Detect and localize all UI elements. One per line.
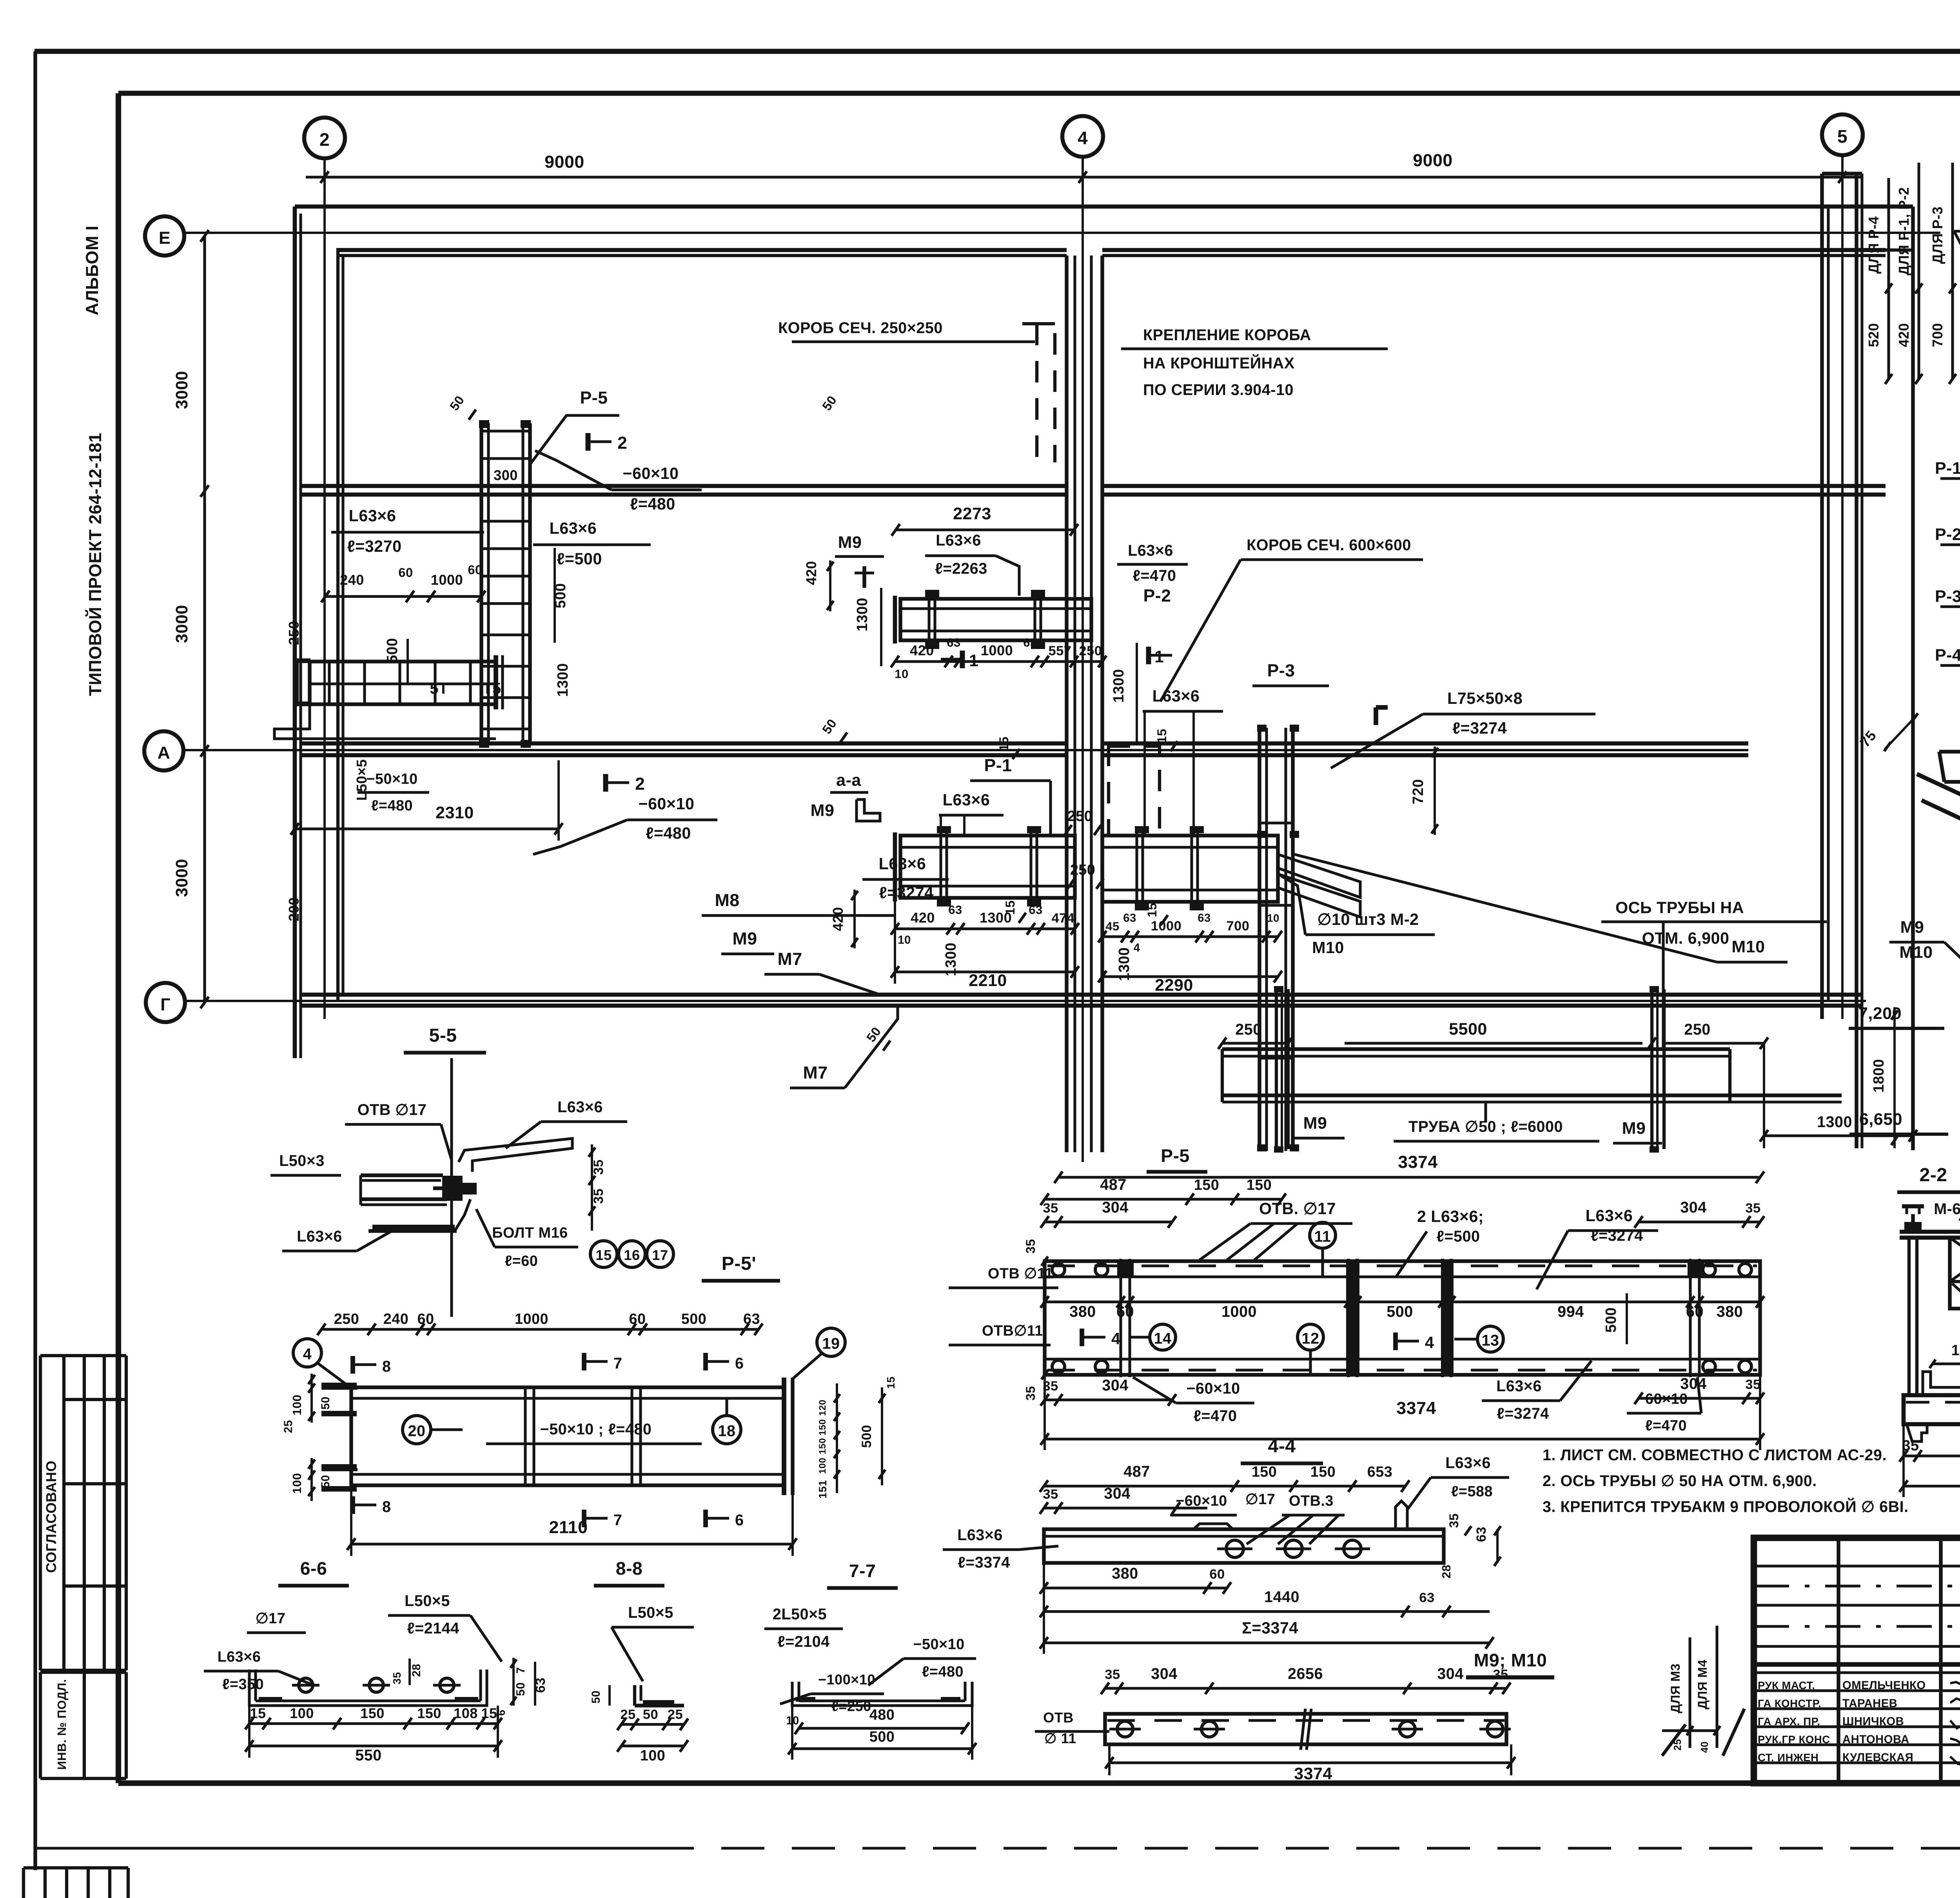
svg-text:ℓ=2104: ℓ=2104 (777, 1633, 829, 1650)
svg-text:63: 63 (948, 903, 962, 917)
svg-text:−60×10: −60×10 (1176, 1493, 1227, 1509)
svg-text:М7: М7 (777, 950, 802, 969)
svg-text:АЛЬБОМ I: АЛЬБОМ I (83, 225, 102, 315)
svg-text:15: 15 (250, 1705, 266, 1721)
svg-text:15: 15 (595, 1247, 612, 1263)
5-5 vertical dims 35 35 (591, 1144, 593, 1231)
svg-text:20: 20 (408, 1423, 426, 1440)
svg-text:304: 304 (1151, 1665, 1177, 1682)
svg-text:380: 380 (1069, 1303, 1096, 1320)
svg-text:Р-5: Р-5 (1161, 1146, 1190, 1166)
svg-text:ℓ=2144: ℓ=2144 (407, 1620, 459, 1637)
axis E line (184, 232, 1940, 234)
svg-text:500: 500 (552, 583, 569, 609)
svg-text:13: 13 (1482, 1332, 1499, 1349)
svg-text:1800: 1800 (1871, 1059, 1887, 1093)
section mark 2 top (586, 433, 591, 451)
circle 13 (1477, 1326, 1503, 1352)
svg-text:1300: 1300 (1817, 1113, 1852, 1131)
dim 2310 below beam (295, 827, 559, 830)
svg-text:L63×6: L63×6 (218, 1649, 261, 1665)
svg-text:1300: 1300 (1116, 947, 1132, 981)
bracket symbol (857, 799, 880, 821)
svg-text:35: 35 (1043, 1201, 1058, 1216)
axis 2 line (323, 158, 326, 1019)
svg-text:700: 700 (1227, 919, 1250, 934)
circle 20 (403, 1416, 431, 1444)
svg-text:420: 420 (830, 907, 846, 931)
svg-text:15: 15 (1154, 729, 1169, 743)
P-5 stiffeners (1119, 1259, 1122, 1377)
svg-text:1000: 1000 (1221, 1303, 1257, 1320)
svg-text:РУК.ГР КОНС: РУК.ГР КОНС (1758, 1733, 1830, 1746)
svg-text:БОЛТ М16: БОЛТ М16 (492, 1225, 568, 1241)
svg-text:L63×6: L63×6 (936, 532, 981, 549)
label 500 right of ladder (554, 548, 556, 643)
svg-text:2290: 2290 (1155, 976, 1193, 995)
ladder top bolt plates (479, 420, 489, 428)
svg-text:2110: 2110 (549, 1518, 588, 1537)
svg-text:240: 240 (340, 572, 364, 588)
dim 2210 below P-1 (895, 970, 1075, 973)
svg-text:L63×6: L63×6 (557, 1099, 603, 1116)
svg-text:М-6: М-6 (1934, 1200, 1960, 1218)
pipe top chord lines (1222, 1047, 1730, 1051)
svg-text:ℓ=3274: ℓ=3274 (1591, 1227, 1643, 1244)
axis G circle (146, 983, 185, 1022)
section mark 1 pair (960, 651, 965, 668)
4-4 bottom dims 1440 63 (1044, 1610, 1490, 1613)
7-7 channel body (792, 1682, 972, 1706)
svg-text:7: 7 (613, 1512, 622, 1529)
svg-text:ℓ=480: ℓ=480 (646, 824, 691, 842)
svg-text:150: 150 (1310, 1464, 1336, 1480)
svg-text:28: 28 (1439, 1564, 1453, 1578)
svg-text:КУЛЕВСКАЯ: КУЛЕВСКАЯ (1842, 1751, 1913, 1764)
svg-text:РУК МАСТ.: РУК МАСТ. (1758, 1679, 1815, 1691)
svg-text:6-6: 6-6 (300, 1558, 327, 1579)
svg-text:120: 120 (817, 1399, 828, 1416)
circle 11 (1310, 1222, 1336, 1248)
svg-text:35: 35 (1105, 1667, 1120, 1682)
frame left border (116, 93, 121, 1783)
svg-text:ℓ=470: ℓ=470 (1133, 567, 1176, 584)
svg-text:L50×3: L50×3 (279, 1152, 325, 1169)
axis 5 line (1841, 155, 1844, 1019)
svg-text:М9: М9 (838, 533, 862, 552)
wall band G axis double lines (302, 993, 1862, 997)
svg-text:КОРОБ СЕЧ. 600×600: КОРОБ СЕЧ. 600×600 (1247, 537, 1411, 554)
svg-text:6: 6 (735, 1355, 744, 1372)
right frame opposite P-1 (1102, 836, 1278, 902)
P-5 end holes (1052, 1264, 1065, 1276)
svg-text:5500: 5500 (1449, 1020, 1487, 1039)
svg-text:ДЛЯ М3: ДЛЯ М3 (1668, 1663, 1682, 1713)
svg-text:63: 63 (1474, 1526, 1489, 1542)
svg-text:63: 63 (1198, 912, 1211, 925)
6-6 hatched feet (259, 1697, 282, 1702)
P-5' section mark 6 bottom (703, 1510, 708, 1527)
P-5' section mark 7 top (582, 1353, 586, 1370)
svg-text:100: 100 (290, 1705, 314, 1721)
label 420 vertical left cluster (853, 890, 856, 948)
dim row below P-2 420 63 1000 63 557 250 (895, 660, 1102, 663)
svg-text:∅10 шт3 М-2: ∅10 шт3 М-2 (1318, 910, 1419, 928)
M9M10 strip body (1105, 1714, 1506, 1744)
svg-text:150: 150 (817, 1438, 828, 1454)
svg-text:ДЛЯ М4: ДЛЯ М4 (1695, 1659, 1710, 1709)
circle 19 P-5' (817, 1328, 845, 1356)
svg-text:17: 17 (652, 1247, 668, 1263)
M9M10 bottom dim 3374 (1109, 1761, 1511, 1764)
svg-text:2210: 2210 (969, 971, 1007, 990)
svg-text:ОТВ.3: ОТВ.3 (1289, 1493, 1334, 1509)
svg-text:Е: Е (159, 228, 171, 248)
svg-text:4-4: 4-4 (1268, 1436, 1296, 1457)
svg-text:304: 304 (1437, 1665, 1463, 1682)
svg-text:25: 25 (282, 1420, 295, 1433)
svg-text:25: 25 (668, 1707, 683, 1722)
dim row below right frame 45 4 63 1000 63 700 10 (1102, 935, 1278, 938)
svg-text:35: 35 (591, 1159, 606, 1175)
svg-text:М9: М9 (1622, 1119, 1646, 1138)
svg-text:50: 50 (590, 1690, 603, 1704)
5-5 top angled plate hatched (459, 1138, 572, 1172)
P-5' left vertical dims (310, 1374, 313, 1423)
svg-text:4: 4 (303, 1346, 312, 1363)
svg-text:50: 50 (643, 1707, 658, 1722)
dla M3 dla M4 columns (1688, 1637, 1691, 1748)
svg-text:3. КРЕПИТСЯ ТРУБАКМ 9 ПРОВОЛ: 3. КРЕПИТСЯ ТРУБАКМ 9 ПРОВОЛОКОЙ ∅ 6ВІ. (1543, 1498, 1909, 1515)
P-2 frame (900, 599, 1091, 640)
svg-text:ℓ=500: ℓ=500 (557, 550, 602, 568)
beam left hatched cap (297, 658, 310, 663)
plan outer wall top (295, 205, 1913, 209)
4-4 dims top 487 150 150 653 (1044, 1485, 1405, 1487)
svg-text:L63×6: L63×6 (957, 1526, 1003, 1544)
svg-text:Σ=3374: Σ=3374 (1242, 1619, 1298, 1637)
svg-text:ПО СЕРИИ 3.904-10: ПО СЕРИИ 3.904-10 (1143, 381, 1294, 399)
svg-text:А: А (158, 743, 171, 763)
svg-text:250: 250 (1235, 1021, 1261, 1038)
P-5' body (351, 1387, 784, 1485)
dim 2290 below right frame (1102, 975, 1278, 978)
P-5 leader label top (530, 415, 619, 464)
left A-axis beam detail (310, 662, 496, 704)
svg-text:L63×6: L63×6 (879, 855, 926, 873)
svg-text:487: 487 (1123, 1463, 1150, 1480)
left room ladder shaft vertical rails (479, 423, 483, 745)
frame top line (34, 49, 1960, 54)
circle 18 (713, 1416, 741, 1444)
svg-text:Г: Г (160, 995, 171, 1014)
P-5' stiffeners (524, 1387, 526, 1485)
svg-text:L63×6: L63×6 (1445, 1454, 1491, 1472)
svg-text:304: 304 (1680, 1375, 1706, 1392)
svg-text:15: 15 (1145, 903, 1159, 917)
svg-text:1: 1 (1154, 647, 1164, 666)
svg-text:2310: 2310 (436, 803, 474, 822)
svg-text:1000: 1000 (981, 642, 1013, 658)
svg-text:L50×5: L50×5 (405, 1592, 450, 1610)
svg-text:35: 35 (1023, 1386, 1038, 1400)
6-6 inner vertical dims (408, 1659, 411, 1685)
2-2 middle angle clips left pair (1923, 1372, 1960, 1395)
P-5 sub dims 35 304 left (1045, 1220, 1172, 1223)
svg-text:6,650: 6,650 (1859, 1110, 1902, 1129)
svg-text:ТАРАНЕВ: ТАРАНЕВ (1842, 1697, 1897, 1710)
svg-text:ℓ=3274: ℓ=3274 (879, 884, 933, 902)
wall band A axis double lines (302, 741, 1067, 746)
svg-text:11: 11 (1314, 1228, 1331, 1245)
frame top second line (118, 91, 1960, 96)
frame bottom border (118, 1780, 1960, 1786)
svg-text:420: 420 (910, 642, 934, 658)
label 500 vertical on beam (407, 639, 409, 684)
P-5 mid dims 380 60 1000 (1045, 1302, 1760, 1302)
svg-text:3374: 3374 (1294, 1764, 1332, 1783)
svg-text:ℓ=500: ℓ=500 (1437, 1228, 1480, 1245)
8-8 dims below (621, 1723, 684, 1726)
svg-text:ОТВ: ОТВ (1043, 1709, 1074, 1726)
5-5 lower hatched plate (372, 1225, 455, 1231)
svg-text:М7: М7 (803, 1063, 828, 1082)
svg-text:994: 994 (1557, 1303, 1584, 1320)
svg-text:ОТМ. 6,900: ОТМ. 6,900 (1642, 929, 1730, 947)
svg-text:НА КРОНШТЕЙНАХ: НА КРОНШТЕЙНАХ (1143, 354, 1295, 372)
2-2 left hatched block (1950, 1238, 1960, 1309)
svg-text:ТИПОВОЙ ПРОЕКТ 264-12-181: ТИПОВОЙ ПРОЕКТ 264-12-181 (85, 433, 105, 696)
svg-text:50: 50 (514, 1682, 527, 1696)
circle 14 (1150, 1324, 1176, 1350)
svg-text:ℓ=350: ℓ=350 (222, 1676, 264, 1693)
axis 5 circle (1822, 114, 1863, 155)
svg-text:L63×6: L63×6 (297, 1228, 342, 1245)
svg-text:15: 15 (996, 736, 1011, 751)
svg-text:L63×6: L63×6 (1152, 687, 1200, 705)
svg-text:720: 720 (1410, 779, 1426, 805)
axis4 shaft wall verticals (1065, 256, 1068, 1152)
pipe right shaft (1650, 989, 1653, 1149)
axis E circle (145, 216, 184, 256)
8-8 height dims (608, 1685, 611, 1706)
svg-text:ГА КОНСТР.: ГА КОНСТР. (1758, 1697, 1821, 1709)
svg-text:45: 45 (1105, 919, 1119, 933)
P-5' dim 2110 (351, 1543, 793, 1545)
svg-text:1. ЛИСТ СМ. СОВМЕСТНО С ЛИ: 1. ЛИСТ СМ. СОВМЕСТНО С ЛИСТОМ АС-29. (1543, 1447, 1887, 1464)
svg-text:ОМЕЛЬЧЕНКО: ОМЕЛЬЧЕНКО (1842, 1679, 1926, 1692)
5-5 vertical centerline (450, 1058, 453, 1317)
svg-text:L75×50×8: L75×50×8 (1447, 689, 1523, 707)
P-5' section mark 6 top (703, 1353, 708, 1370)
P-5 sub dims 304 35 right (1639, 1220, 1760, 1223)
svg-text:35: 35 (1023, 1239, 1038, 1253)
8-8 channel body (635, 1704, 680, 1707)
circles 15 16 17 (590, 1241, 617, 1267)
svg-text:10: 10 (1267, 912, 1279, 924)
svg-text:−60×10: −60×10 (639, 795, 695, 813)
beam lower bracket step (274, 704, 496, 739)
svg-text:−60×10: −60×10 (1186, 1380, 1240, 1397)
svg-text:ОТВ ∅17: ОТВ ∅17 (358, 1101, 426, 1118)
svg-text:1300: 1300 (1111, 669, 1127, 703)
svg-text:50: 50 (319, 1475, 332, 1488)
circle 4 P-5' (293, 1339, 321, 1367)
svg-text:ℓ=470: ℓ=470 (1194, 1407, 1237, 1425)
svg-text:240: 240 (383, 1311, 409, 1327)
svg-text:ℓ=480: ℓ=480 (630, 495, 675, 513)
svg-text:7: 7 (613, 1355, 622, 1372)
label 720 vertical right (1434, 747, 1436, 835)
svg-text:10: 10 (895, 667, 908, 681)
6-6 dims below (249, 1722, 498, 1725)
2-2 bottom dim row (1904, 1454, 1960, 1457)
svg-text:60: 60 (468, 562, 482, 577)
dim row below P-1 420 63 1300 63 474 (895, 927, 1075, 930)
svg-text:304: 304 (1102, 1199, 1128, 1216)
svg-text:ОТВ∅11: ОТВ∅11 (982, 1323, 1043, 1339)
truss top chord sloped band (1917, 774, 1960, 992)
section mark 2 bottom (603, 774, 608, 792)
leader slash mark (1662, 1724, 1686, 1756)
svg-text:ℓ=3274: ℓ=3274 (1452, 719, 1507, 737)
svg-text:474: 474 (1052, 911, 1075, 926)
svg-text:108: 108 (454, 1705, 478, 1721)
svg-text:СОГЛАСОВАНО: СОГЛАСОВАНО (43, 1461, 59, 1573)
svg-text:7-7: 7-7 (849, 1561, 876, 1581)
svg-text:2273: 2273 (953, 504, 991, 523)
4-4 member body (1044, 1529, 1444, 1563)
svg-text:2656: 2656 (1288, 1665, 1323, 1682)
svg-text:Р-2: Р-2 (1935, 525, 1960, 544)
title block thin rows upper left (1754, 1564, 1960, 1567)
svg-text:Р-3: Р-3 (1267, 661, 1295, 680)
svg-text:ДЛЯ Р-1, Р-2: ДЛЯ Р-1, Р-2 (1896, 187, 1912, 276)
svg-text:304: 304 (1680, 1199, 1706, 1216)
signatures squiggles (1950, 1676, 1960, 1688)
svg-text:ℓ=2263: ℓ=2263 (935, 560, 987, 577)
svg-text:5: 5 (1837, 126, 1847, 147)
svg-text:35: 35 (1493, 1667, 1508, 1682)
svg-text:50: 50 (319, 1396, 332, 1410)
svg-text:−50×10 ; ℓ=480: −50×10 ; ℓ=480 (540, 1421, 652, 1438)
svg-text:2: 2 (617, 433, 627, 453)
svg-text:63: 63 (947, 636, 960, 649)
svg-text:60: 60 (398, 565, 413, 580)
svg-text:40: 40 (1699, 1741, 1710, 1753)
2-2 corbels below beam (1907, 1424, 1927, 1441)
svg-text:М8: М8 (715, 891, 739, 910)
svg-text:150: 150 (417, 1705, 441, 1721)
M9M10 holes (1117, 1721, 1133, 1737)
svg-text:500: 500 (1387, 1303, 1413, 1320)
svg-text:ℓ=480: ℓ=480 (922, 1664, 964, 1680)
title block verticals left part (1837, 1538, 1840, 1783)
svg-text:9000: 9000 (544, 152, 584, 172)
axis 4 line (1082, 157, 1084, 1162)
svg-text:1000: 1000 (515, 1311, 548, 1327)
svg-text:4: 4 (1078, 128, 1088, 148)
svg-text:380: 380 (1112, 1565, 1138, 1582)
axis G line (185, 1000, 1866, 1002)
7-7 hatched feet (796, 1697, 815, 1702)
P-5' section mark 8 bottom (350, 1496, 355, 1514)
svg-text:250: 250 (286, 621, 302, 645)
svg-text:60: 60 (1209, 1567, 1225, 1582)
svg-text:3000: 3000 (172, 859, 191, 897)
svg-text:4: 4 (1134, 942, 1140, 954)
7-7 dims below (799, 1727, 965, 1729)
svg-text:6: 6 (735, 1512, 744, 1529)
svg-text:420: 420 (803, 561, 819, 585)
beam end plate right (494, 655, 498, 709)
svg-text:4: 4 (1425, 1334, 1434, 1352)
svg-text:557: 557 (1049, 644, 1072, 658)
svg-text:2-2: 2-2 (1919, 1164, 1947, 1186)
dim 1800 vertical right (1893, 1007, 1896, 1148)
dims 240 60 1000 60 above ladder (325, 595, 481, 598)
dim 5500 above pipe (1288, 1043, 1652, 1044)
svg-text:1000: 1000 (1151, 919, 1182, 934)
svg-text:Р-3: Р-3 (1935, 587, 1960, 606)
svg-text:653: 653 (1367, 1464, 1393, 1480)
svg-text:1300: 1300 (980, 910, 1012, 926)
svg-text:ℓ=3374: ℓ=3374 (958, 1554, 1010, 1571)
svg-text:63: 63 (1029, 903, 1042, 917)
svg-text:150: 150 (1247, 1177, 1272, 1193)
right wall top hook (1822, 172, 1862, 175)
svg-text:1300: 1300 (555, 663, 571, 697)
svg-text:∅17: ∅17 (256, 1610, 286, 1627)
plan top wall inner double line left room (336, 248, 1067, 252)
6-6 channel body (249, 1670, 487, 1706)
svg-text:ОТВ ∅11: ОТВ ∅11 (988, 1265, 1053, 1282)
svg-text:250: 250 (1067, 808, 1093, 825)
svg-text:Р-5: Р-5 (580, 388, 608, 408)
plan right wall axis5 verticals (1820, 174, 1824, 1019)
left dimension line 3000x3 (203, 236, 206, 1003)
axis 2 circle (304, 118, 345, 158)
svg-text:150: 150 (1194, 1177, 1220, 1193)
svg-text:380: 380 (1717, 1303, 1743, 1320)
svg-text:М9: М9 (1900, 918, 1924, 937)
svg-text:8-8: 8-8 (616, 1558, 643, 1579)
ladder rungs (481, 430, 530, 432)
svg-text:480: 480 (869, 1707, 895, 1723)
title block outer (1754, 1538, 1960, 1783)
svg-text:−50×10: −50×10 (913, 1636, 964, 1653)
svg-text:L63×6: L63×6 (1496, 1378, 1542, 1395)
2-2 left top plate (1900, 1230, 1960, 1234)
svg-text:L63×6: L63×6 (550, 519, 597, 537)
svg-text:63: 63 (1123, 912, 1136, 925)
vertical dim strip near axis5 (1887, 178, 1890, 379)
svg-text:25: 25 (620, 1707, 635, 1722)
plan outer wall right edge (1911, 207, 1915, 1150)
svg-text:200: 200 (286, 897, 302, 921)
svg-text:8: 8 (382, 1498, 391, 1515)
svg-text:ИНВ. № ПОДЛ.: ИНВ. № ПОДЛ. (55, 1679, 69, 1770)
svg-text:КРЕПЛЕНИЕ КОРОБА: КРЕПЛЕНИЕ КОРОБА (1143, 326, 1311, 344)
svg-text:60: 60 (1116, 1303, 1134, 1320)
svg-text:100: 100 (640, 1748, 666, 1764)
P-5' top dims 250 240 60 1000 60 500 63 (321, 1328, 759, 1331)
svg-text:1300: 1300 (943, 943, 959, 976)
svg-text:300: 300 (494, 467, 518, 483)
stamp table soglasovano (40, 1354, 126, 1357)
svg-text:700: 700 (1929, 323, 1945, 347)
svg-text:60: 60 (417, 1311, 434, 1327)
